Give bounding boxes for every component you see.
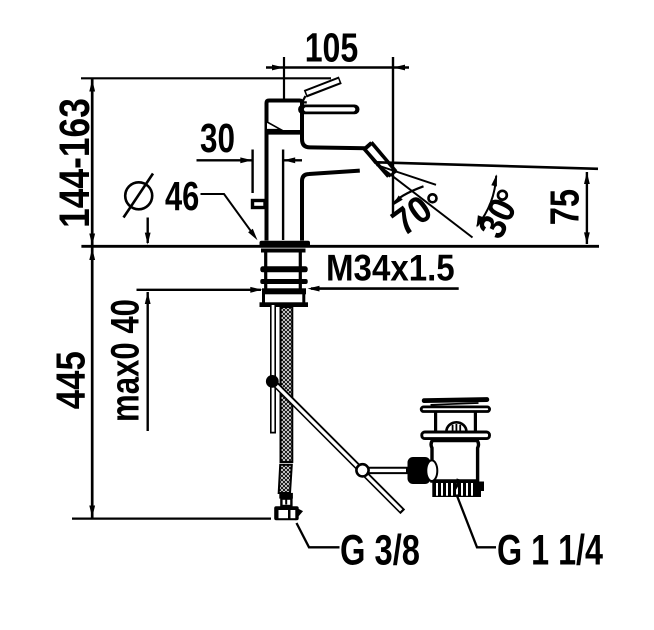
leader line for 46 xyxy=(201,194,254,235)
dimension 144-163 top arrow xyxy=(89,80,95,92)
M34x1.5 arrow xyxy=(308,286,320,292)
dimension 445 top arrow xyxy=(89,248,95,260)
nut ring 1 xyxy=(260,266,307,272)
faucet cap outline xyxy=(267,101,303,133)
dimension 105 line xyxy=(266,66,409,69)
nozzle band inner edge xyxy=(363,148,389,177)
70 deg arc arrow xyxy=(390,195,403,208)
drain ball ellipse xyxy=(426,460,437,481)
pop-up rod xyxy=(270,305,276,434)
dimension 30 right arrow xyxy=(283,157,295,163)
nut ring 3 xyxy=(262,288,306,294)
nozzle end caps xyxy=(389,172,397,177)
braided hose upper xyxy=(281,307,293,462)
30 deg arc xyxy=(477,176,496,226)
leader 46 arrow xyxy=(248,229,260,242)
small tab on body left xyxy=(253,201,266,208)
svg-text:30: 30 xyxy=(200,115,235,161)
M34x1.5 underline leader xyxy=(311,287,459,290)
hose crimp xyxy=(281,499,291,506)
max 40 reference line xyxy=(137,289,262,291)
base flange xyxy=(260,241,311,247)
dimension 105 right arrow xyxy=(393,65,405,71)
svg-text:105: 105 xyxy=(305,25,359,71)
drain dome xyxy=(446,422,466,431)
drain body xyxy=(431,441,478,482)
drain neck xyxy=(436,413,476,433)
top reference line (163 max height) xyxy=(81,77,331,79)
svg-text:144-163: 144-163 xyxy=(51,98,99,228)
dimension 144-163 bottom arrow xyxy=(89,234,95,246)
nut ring 2 xyxy=(260,279,307,284)
svg-text:max0 40: max0 40 xyxy=(104,299,148,422)
dimension 144-163 line xyxy=(91,79,94,246)
drain plate 2 xyxy=(421,407,489,412)
diameter symbol xyxy=(124,174,154,218)
dimension 30 left arrow xyxy=(240,157,252,163)
max 40 vertical line xyxy=(146,292,148,431)
dimension 30 line left xyxy=(197,159,253,161)
dimension 75 top arrow xyxy=(584,172,590,184)
joint band xyxy=(265,130,303,135)
nozzle band outer edge xyxy=(371,142,396,171)
dimension 105 left arrow xyxy=(272,65,284,71)
pivot circle xyxy=(356,464,368,476)
lever up position xyxy=(303,80,340,102)
lock flare sides xyxy=(264,294,304,303)
jet mid line (70 deg ray) xyxy=(377,165,437,185)
dimension 445 bottom arrow xyxy=(89,506,95,518)
lever horizontal position xyxy=(303,105,355,115)
max 40 lower arrow pointing up xyxy=(145,292,151,304)
max 40 top arrow (above countertop) xyxy=(146,218,148,244)
svg-text:445: 445 xyxy=(48,351,94,409)
lock bottom bar xyxy=(260,302,309,307)
max 40 reference arrow xyxy=(250,287,262,293)
nozzle V line xyxy=(364,149,376,164)
wedge indicator xyxy=(266,122,281,130)
dimension 30 line right xyxy=(284,159,303,161)
G3/8 hex nut xyxy=(274,506,299,520)
30 deg arc top arrow xyxy=(491,174,499,187)
svg-text:46: 46 xyxy=(165,173,199,219)
svg-text:M34x1.5: M34x1.5 xyxy=(326,247,455,288)
horizontal rod to drain xyxy=(364,467,410,474)
dimension 105 right extension line xyxy=(392,57,394,214)
drain thread xyxy=(432,482,484,498)
dimension 75 line xyxy=(586,172,588,244)
jet line A (horizontal spray line) xyxy=(376,162,599,169)
drain knob xyxy=(408,457,431,484)
dimension 30 right extension line (faucet axis) xyxy=(282,150,284,241)
drain collar xyxy=(422,432,490,439)
svg-text:75: 75 xyxy=(541,189,587,225)
dimension 445 line xyxy=(91,247,94,518)
shank segment 1 xyxy=(266,252,301,267)
shank washer xyxy=(261,249,306,253)
faucet body and spout outline xyxy=(267,135,372,241)
dimension 105 left extension line xyxy=(283,57,285,99)
jet line B (steep spray line) xyxy=(376,163,473,238)
svg-text:G 3/8: G 3/8 xyxy=(340,526,420,574)
ball joint xyxy=(266,375,279,388)
braided hose lower xyxy=(279,465,292,493)
hose ferrule xyxy=(279,493,293,499)
leader G 3/8 xyxy=(297,523,340,547)
dimension 75 bottom arrow xyxy=(584,232,590,244)
30 deg arc bottom arrow xyxy=(474,215,484,228)
svg-text:G 1 1/4: G 1 1/4 xyxy=(497,526,603,574)
drain top plate tilted xyxy=(422,397,489,403)
countertop line xyxy=(81,245,599,248)
diagonal lever rod xyxy=(275,383,403,512)
70 deg arc xyxy=(393,186,424,204)
shank segment 3 xyxy=(266,284,301,289)
bottom reference line xyxy=(72,517,271,519)
shank segment 2 xyxy=(266,272,301,280)
leader G 1 1/4 xyxy=(457,495,497,548)
dimension 30 left extension line xyxy=(251,150,253,194)
